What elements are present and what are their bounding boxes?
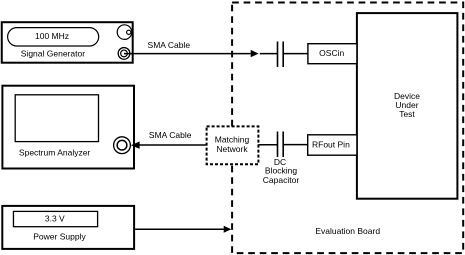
signal generator display 100 MHz [8,28,99,46]
label Evaluation Board [315,226,380,236]
svg-text:Signal Generator: Signal Generator [21,49,85,59]
wire C1 to OSCin pin [284,53,308,55]
wire SMA cable 1 with arrow into evaluation board [124,50,259,57]
svg-text:3.3 V: 3.3 V [45,214,65,224]
signal generator knob [117,25,132,40]
svg-text:Network: Network [216,144,248,154]
capacitor C1 [278,42,284,68]
svg-text:Power Supply: Power Supply [33,232,86,242]
spectrum analyzer box [2,86,134,169]
wire SMA cable 2 with arrow toward spectrum analyzer [131,142,207,149]
spectrum analyzer input connector [114,137,131,154]
wire C2 to RFout pin [284,144,308,146]
capacitor C2 (DC blocking) [278,132,284,158]
pin OSCin [308,44,357,64]
svg-text:SMA Cable: SMA Cable [148,40,191,50]
pin RFout [308,135,357,155]
svg-text:SMA Cable: SMA Cable [149,130,192,140]
power supply box [2,206,134,249]
label SMA Cable (bottom) [149,130,192,140]
signal generator box [2,22,133,63]
svg-text:RFout Pin: RFout Pin [312,140,350,150]
matching network box [207,126,259,164]
svg-text:Evaluation Board: Evaluation Board [315,226,380,236]
wire matching network to C2 [258,144,277,146]
spectrum analyzer screen [15,95,98,142]
svg-text:Test: Test [399,109,415,119]
svg-text:OSCin: OSCin [319,48,344,58]
svg-text:Spectrum Analyzer: Spectrum Analyzer [19,148,91,158]
label DC Blocking Capacitor [263,157,300,185]
label SMA Cable (top) [148,40,191,50]
wire arrow to C1 [260,53,278,55]
evaluation board dashed boundary [232,3,463,254]
svg-text:100 MHz: 100 MHz [35,31,69,41]
device under test U1 [357,13,458,199]
signal generator output connector [118,48,130,60]
wire power supply to evaluation board with arrow [135,226,231,233]
svg-text:Capacitor: Capacitor [263,175,300,185]
power supply display 3.3 V [13,211,97,226]
